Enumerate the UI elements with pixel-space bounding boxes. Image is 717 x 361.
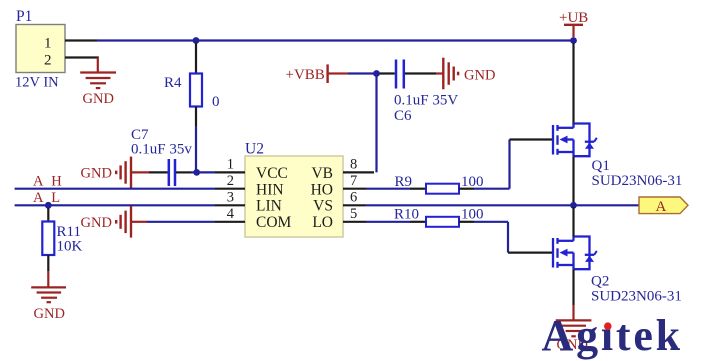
svg-text:A: A: [656, 199, 667, 215]
svg-text:0: 0: [212, 94, 220, 110]
svg-text:GND: GND: [34, 306, 65, 322]
svg-text:6: 6: [350, 189, 357, 205]
wire +UB to Q1 drain: [572, 43, 574, 125]
svg-text:10K: 10K: [57, 239, 83, 255]
power ground GND at C6: [443, 58, 458, 90]
svg-text:HO: HO: [311, 181, 333, 198]
svg-text:100: 100: [461, 207, 484, 223]
ground GND under P1: [80, 58, 116, 89]
wire R10 to Q2 gate: [474, 221, 508, 223]
U2 pin 7: [343, 188, 366, 190]
U2 pin 4: [215, 221, 245, 223]
svg-text:LO: LO: [312, 214, 333, 231]
resistor R4: [164, 43, 220, 126]
svg-text:A: A: [33, 190, 44, 206]
wire C6 to GND: [405, 72, 436, 74]
wire VBB node to U2 pin 8: [375, 74, 377, 173]
junction output node: [570, 202, 577, 209]
wire +VBB to C6: [336, 72, 348, 74]
junction at R4 top: [193, 37, 200, 44]
wire GND to C7: [131, 171, 149, 173]
power port +UB: [559, 10, 588, 37]
svg-text:VS: VS: [313, 198, 333, 215]
svg-text:VB: VB: [311, 165, 333, 182]
wire Q1 source to output node: [572, 156, 574, 203]
svg-text:R4: R4: [164, 75, 182, 91]
svg-text:+UB: +UB: [559, 10, 588, 26]
svg-text:1: 1: [227, 157, 234, 173]
svg-text:2: 2: [227, 173, 234, 189]
wire +UB node to Q2 drain: [572, 207, 574, 237]
wire 12V top rail: [97, 39, 574, 41]
junction R11: [45, 202, 52, 209]
P1 pin 1: [65, 39, 97, 41]
IC U2: [245, 141, 343, 238]
wire A H: [15, 188, 215, 190]
wire Q2 source to ground: [572, 269, 574, 305]
ground GND under Q2: [556, 320, 592, 336]
U2 pin 1: [215, 171, 245, 173]
svg-text:Q1: Q1: [592, 158, 610, 174]
svg-text:H: H: [51, 173, 62, 189]
wire R9 to Q1 gate: [474, 188, 510, 190]
svg-text:GND: GND: [83, 91, 114, 107]
svg-text:L: L: [51, 190, 60, 206]
U2 pin 6: [343, 204, 365, 206]
svg-text:R10: R10: [394, 207, 419, 223]
wire C7 to U2 pin 1: [176, 171, 191, 173]
svg-text:0.1uF 35v: 0.1uF 35v: [131, 142, 192, 158]
ground GND under R11: [31, 271, 66, 302]
output wire VS / node A: [365, 204, 639, 206]
svg-text:4: 4: [227, 206, 235, 222]
svg-text:LIN: LIN: [256, 198, 282, 215]
capacitor C6: [394, 60, 458, 125]
P1 pin 2: [65, 56, 99, 58]
svg-text:GND: GND: [464, 68, 495, 84]
resistor R11: [42, 208, 82, 271]
svg-text:+VBB: +VBB: [286, 67, 325, 83]
resistor R9: [366, 174, 484, 194]
svg-text:COM: COM: [256, 214, 292, 231]
power port +VBB: [286, 64, 337, 83]
junction +UB: [570, 37, 577, 44]
svg-text:5: 5: [350, 206, 357, 222]
svg-text:A: A: [33, 173, 44, 189]
svg-text:1: 1: [44, 36, 52, 52]
svg-text:C6: C6: [394, 108, 412, 124]
resistor R10: [366, 207, 484, 227]
svg-text:3: 3: [227, 189, 234, 205]
svg-text:Q2: Q2: [591, 274, 609, 290]
U2 pin 8: [343, 171, 374, 173]
wire R4 to C7 node: [195, 126, 197, 172]
svg-text:GND: GND: [81, 166, 112, 182]
svg-text:12V IN: 12V IN: [15, 75, 59, 91]
svg-text:U2: U2: [245, 141, 264, 158]
port A: [639, 197, 688, 215]
transistor Q1: [553, 124, 597, 157]
power ground GND at U2 COM: [116, 206, 131, 238]
wire GND to U2 pin 4: [131, 221, 147, 223]
svg-text:R9: R9: [395, 174, 413, 190]
svg-text:SUD23N06-31: SUD23N06-31: [592, 173, 683, 189]
svg-text:2: 2: [44, 53, 52, 69]
svg-text:HIN: HIN: [256, 181, 284, 198]
transistor Q2: [553, 237, 597, 270]
power ground GND at C7: [116, 157, 131, 189]
svg-text:8: 8: [350, 157, 357, 173]
capacitor C7: [131, 127, 192, 186]
Agitek logo: [542, 311, 683, 360]
wire A L: [15, 204, 215, 206]
svg-text:GND: GND: [81, 215, 112, 231]
junction C7 / R4: [193, 169, 200, 176]
connector P1: [15, 8, 65, 91]
U2 pin 5: [343, 221, 366, 223]
U2 pin 2: [215, 188, 245, 190]
U2 pin 3: [215, 204, 245, 206]
svg-text:P1: P1: [16, 8, 32, 25]
junction +VBB node: [373, 70, 380, 77]
svg-text:0.1uF 35V: 0.1uF 35V: [394, 93, 458, 109]
svg-text:7: 7: [350, 173, 357, 189]
svg-text:SUD23N06-31: SUD23N06-31: [591, 289, 682, 305]
svg-text:Agıtek: Agıtek: [542, 311, 683, 360]
svg-text:VCC: VCC: [256, 165, 288, 182]
